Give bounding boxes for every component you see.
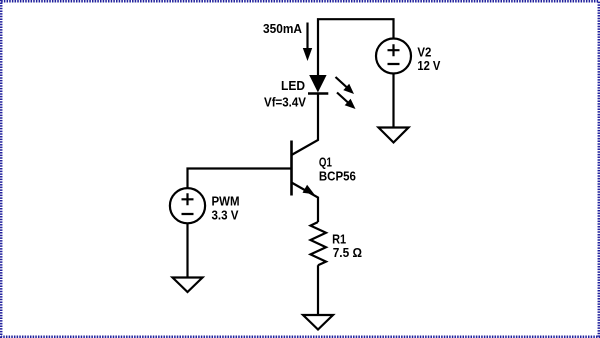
- svg-text:12 V: 12 V: [417, 58, 440, 73]
- current arrow head: [303, 48, 312, 61]
- PWM polarity marks: [182, 193, 194, 214]
- svg-text:PWM: PWM: [212, 193, 240, 208]
- svg-text:7.5 Ω: 7.5 Ω: [333, 245, 363, 260]
- wire LED cathode down to Q1 collector: [292, 94, 319, 156]
- ground under R1: [303, 315, 333, 330]
- transistor Q1 base bar: [290, 141, 293, 196]
- wire PWM negative lead to ground: [186, 223, 188, 277]
- wire R1 bottom to ground: [317, 265, 319, 315]
- ground under PWM: [173, 278, 203, 293]
- voltage source V2 body: [376, 39, 411, 74]
- wire base of Q1 to PWM: [188, 169, 292, 189]
- LED light arrow 2: [337, 93, 349, 104]
- V2 polarity marks: [388, 44, 400, 64]
- transistor Q1 emitter arrow: [303, 185, 315, 195]
- ground under V2: [379, 128, 409, 143]
- svg-text:BCP56: BCP56: [319, 169, 356, 184]
- svg-text:3.3 V: 3.3 V: [212, 208, 239, 223]
- LED cathode bar: [308, 92, 328, 94]
- LED anode triangle: [309, 75, 326, 93]
- svg-text:350mA: 350mA: [263, 21, 302, 36]
- current arrow shaft: [306, 23, 308, 51]
- voltage source PWM body: [170, 188, 205, 223]
- svg-text:Q1: Q1: [319, 155, 332, 170]
- svg-text:LED: LED: [281, 78, 305, 93]
- wire V2 negative lead to ground: [392, 74, 394, 128]
- wire top rail from LED anode corner to V2: [318, 19, 394, 75]
- wire Q1 emitter to resistor R1: [292, 183, 319, 223]
- resistor R1 zigzag: [311, 222, 327, 265]
- LED light arrow 1: [336, 77, 348, 88]
- svg-text:Vf=3.4V: Vf=3.4V: [264, 94, 306, 109]
